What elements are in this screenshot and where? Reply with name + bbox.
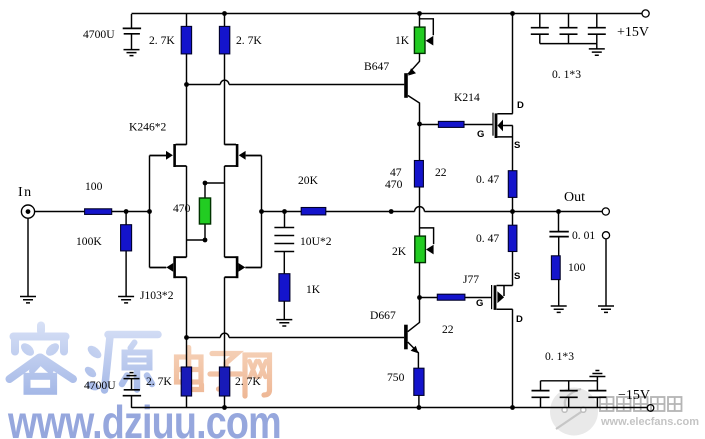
svg-text:4700U: 4700U	[84, 379, 116, 392]
wire left column sources down to lower mid rail	[186, 277, 188, 337]
svg-text:2. 7K: 2. 7K	[146, 375, 172, 388]
node junction dot: 10U branch	[282, 209, 287, 214]
node junction dot: unlabeled on output line	[389, 209, 394, 214]
watermark char 网 (peach)	[245, 355, 270, 396]
MOSFET J77 (P-channel)	[492, 285, 513, 408]
wire right gate column	[261, 156, 263, 268]
node junction dot 470 top	[203, 181, 208, 186]
transistor D667 (NPN)	[404, 298, 419, 369]
resistor 100 (Zobel)	[551, 256, 560, 306]
watermark char 电 (peach)	[177, 348, 202, 390]
resistor 2.7K (bottom-second)	[219, 367, 229, 410]
ground (100K)	[118, 297, 134, 303]
svg-text:In: In	[18, 185, 33, 200]
svg-text:0. 01: 0. 01	[572, 229, 595, 242]
svg-text:B647: B647	[364, 60, 389, 73]
JFET K246 right (top pair)	[225, 144, 262, 167]
svg-text:0. 47: 0. 47	[476, 232, 499, 245]
svg-text:100: 100	[85, 180, 103, 193]
JFET J103 left (bottom pair)	[150, 256, 187, 278]
transistor B647 (PNP)	[404, 53, 419, 124]
terminal -15V	[647, 405, 654, 412]
node junction dot: J77 drain on -rail	[510, 405, 515, 410]
svg-text:www.elecfans.com: www.elecfans.com	[600, 416, 699, 428]
svg-text:0. 47: 0. 47	[476, 173, 499, 186]
node junction dot: node B (D667 collector)	[417, 295, 422, 300]
wire tap left column to 470 bottom	[187, 239, 206, 241]
ground (input jack)	[20, 297, 36, 303]
wire left drain column down to JFET	[186, 85, 188, 145]
wire top +15V rail	[132, 13, 643, 15]
svg-text:−15V: −15V	[618, 388, 650, 403]
MOSFET K214 (N-channel)	[493, 14, 513, 171]
node junction dot: 750 on -rail	[417, 405, 422, 410]
wire upper mid rail (drain of K246 to B647 base), with gap for hump	[187, 84, 405, 86]
capacitor bank 0.1*3 (bottom, ground up)	[532, 377, 607, 408]
svg-text:1K: 1K	[395, 34, 410, 47]
node junction dot: left drain column on upper mid rail	[184, 82, 189, 87]
wire main output line y=211.2, with gap for hump at x=419.3	[262, 211, 603, 213]
svg-text:1K: 1K	[306, 283, 321, 296]
capacitor 4700U (bottom, ground above)	[123, 373, 141, 408]
svg-text:2. 7K: 2. 7K	[149, 34, 175, 47]
svg-text:Out: Out	[564, 190, 585, 205]
wire tap right column to 470 top	[205, 182, 225, 184]
node junction dot: top rail at pot column	[417, 11, 422, 16]
wire hump: 2.7K column crosses lower mid rail	[220, 333, 229, 337]
svg-text:G: G	[476, 298, 483, 309]
resistor 750 (D667 emitter)	[414, 368, 424, 407]
svg-text:K246*2: K246*2	[129, 121, 167, 134]
WATERMARKS	[7, 326, 699, 439]
svg-text:www.dziuu.com: www.dziuu.com	[7, 396, 281, 439]
wire bottom -15V rail	[132, 407, 648, 409]
ground (1K)	[276, 320, 292, 326]
svg-text:2. 7K: 2. 7K	[235, 375, 261, 388]
capacitor bank 0.1*3 (top)	[531, 14, 606, 49]
ground (Zobel)	[551, 306, 567, 312]
svg-text:J103*2: J103*2	[140, 289, 174, 302]
JFET K246 left (top pair)	[150, 144, 187, 167]
svg-text:10U*2: 10U*2	[300, 235, 332, 248]
svg-text:100: 100	[568, 261, 586, 274]
watermark www.dziuu.com (blue)	[7, 396, 281, 439]
resistor 100K (to ground)	[121, 212, 132, 297]
terminal +15V	[642, 10, 649, 17]
node junction dot: left column on lower mid rail	[184, 335, 189, 340]
node junction dot: node A (B647 collector)	[417, 122, 422, 127]
watermark char 源 (light blue)	[83, 335, 158, 393]
watermark elecfans logo (grey disc)	[550, 388, 598, 436]
wire hump: 2.7K column crosses upper mid rail	[220, 80, 229, 84]
wire out return to ground	[605, 239, 607, 306]
potentiometer 2K (green, with wiper arrow)	[415, 228, 434, 297]
resistor 1K (feedback shunt)	[279, 274, 290, 320]
node junction dot 470 bottom	[203, 238, 208, 243]
resistor 2.7K (top-left)	[181, 14, 191, 85]
wire input to 100	[35, 211, 85, 213]
resistor 0.47 (upper)	[508, 171, 517, 212]
svg-text:S: S	[514, 271, 520, 282]
ground (top 0.1*3)	[589, 49, 605, 55]
node junction dot: gate tee	[147, 209, 152, 214]
node junction dot: 100K tap	[124, 209, 129, 214]
svg-text:J77: J77	[463, 273, 479, 286]
resistor 22 (K214 gate)	[420, 121, 493, 127]
wire hump: output line crosses 47-resistor column	[415, 207, 425, 212]
svg-text:22: 22	[435, 166, 447, 179]
JFET J103 right (bottom pair)	[225, 256, 262, 278]
svg-text:+15V: +15V	[617, 25, 649, 40]
ground (out return)	[598, 306, 614, 312]
watermark char 容 (light blue)	[10, 326, 74, 392]
capacitor 10U*2 (series pair)	[274, 212, 294, 274]
svg-text:D667: D667	[370, 309, 396, 322]
potentiometer 1K (green, with wiper arrow)	[414, 14, 433, 54]
node junction dot: Zobel tap	[556, 209, 561, 214]
ground (bottom 0.1*3, inverted)	[589, 371, 605, 377]
resistor 100 (series input)	[85, 209, 150, 215]
svg-text:470: 470	[385, 178, 403, 191]
svg-text:D: D	[516, 314, 523, 325]
resistor 2.7K (top-second)	[219, 11, 229, 145]
svg-text:S: S	[514, 140, 520, 151]
svg-text:0. 1*3: 0. 1*3	[552, 68, 581, 81]
svg-text:20K: 20K	[298, 174, 319, 187]
resistor 0.47 (lower)	[508, 212, 517, 286]
svg-text:2. 7K: 2. 7K	[236, 34, 262, 47]
resistor 20K (feedback)	[301, 208, 326, 215]
resistor 2.7K (bottom-left)	[181, 338, 191, 408]
terminal Out return	[602, 232, 609, 239]
resistor 47 (source of upper stage)	[414, 124, 423, 236]
capacitor 4700U (top)	[123, 14, 141, 56]
watermark char 子 (peach)	[210, 354, 241, 390]
svg-text:G: G	[477, 129, 484, 140]
svg-text:K214: K214	[454, 91, 480, 104]
svg-text:4700U: 4700U	[83, 28, 115, 41]
svg-text:2K: 2K	[392, 245, 407, 258]
svg-text:750: 750	[387, 371, 405, 384]
node junction dot: output node	[510, 209, 515, 214]
watermark 电子发烧友 (grey blocks)	[600, 397, 682, 411]
resistor 22 (J77 gate)	[420, 294, 492, 300]
svg-text:22: 22	[442, 323, 454, 336]
svg-text:D: D	[517, 100, 524, 111]
capacitor 0.01 (Zobel)	[549, 212, 568, 256]
wire inner right column (source K246R to drain J103R)	[224, 166, 226, 257]
wire lower mid rail (source of J103 to D667 base), with gap for hump	[187, 337, 405, 339]
wire left gate column	[149, 156, 151, 268]
node junction dot: K214 drain on +rail	[510, 11, 515, 16]
resistor 470 (green, source link)	[199, 183, 210, 240]
wire inner left column (source K246L to drain J103L)	[186, 166, 188, 257]
node junction dot: feedback on right gate column	[259, 209, 264, 214]
input jack In	[21, 205, 34, 296]
svg-text:470: 470	[173, 202, 191, 215]
svg-text:100K: 100K	[76, 235, 102, 248]
terminal Out	[602, 208, 609, 215]
svg-text:0. 1*3: 0. 1*3	[545, 350, 574, 363]
wire right column sources down through hump to 2.7K	[224, 277, 226, 367]
